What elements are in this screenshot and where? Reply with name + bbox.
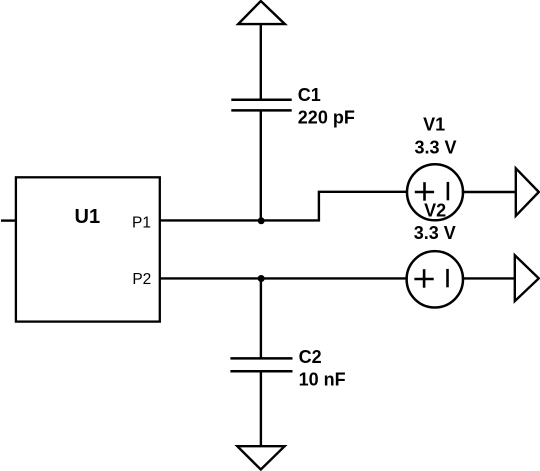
svg-text:3.3 V: 3.3 V [414,223,456,243]
power symbol (up arrow) [238,1,285,24]
capacitor C2 [230,358,292,371]
capacitor C1 [231,100,291,111]
svg-text:P1: P1 [132,214,151,231]
port symbol (right arrow, net 1) [516,168,539,216]
svg-text:3.3 V: 3.3 V [414,137,456,157]
svg-text:V2: V2 [424,201,446,221]
wire: power symbol to C1 top plate [260,24,262,100]
wire: C1 bottom plate to node on P1 net [260,110,262,220]
svg-text:C1: C1 [298,85,321,105]
junction node on P2 net [258,275,265,282]
wire: P1 pin to step corner [160,192,408,221]
label V1 / 3.3 V [414,115,456,158]
value label C2 / 10 nF [299,347,346,389]
label V2 / 3.3 V [414,201,456,243]
svg-text:C2: C2 [299,347,322,367]
port symbol (right arrow, net 2) [515,255,539,301]
wire: P2 pin to V2 [160,277,408,279]
svg-text:P2: P2 [132,271,151,288]
svg-text:10 nF: 10 nF [299,370,346,390]
ground (down arrow) [237,446,284,469]
wire: V1 output to port [462,191,516,193]
wire: C2 bottom plate to ground [260,371,262,446]
wire: node on P2 net to C2 top plate [260,279,262,359]
value label C1 / 220 pF [298,85,355,128]
IC U1 box [16,177,160,321]
svg-text:U1: U1 [75,206,101,228]
voltage source V2 [407,251,463,307]
junction node on P1 net [258,217,265,224]
wire: U1 left pin stub [1,219,16,221]
voltage source V1 [407,164,463,220]
svg-text:V1: V1 [423,115,445,135]
svg-text:220 pF: 220 pF [298,108,355,128]
wire: V2 output to port [462,277,515,279]
